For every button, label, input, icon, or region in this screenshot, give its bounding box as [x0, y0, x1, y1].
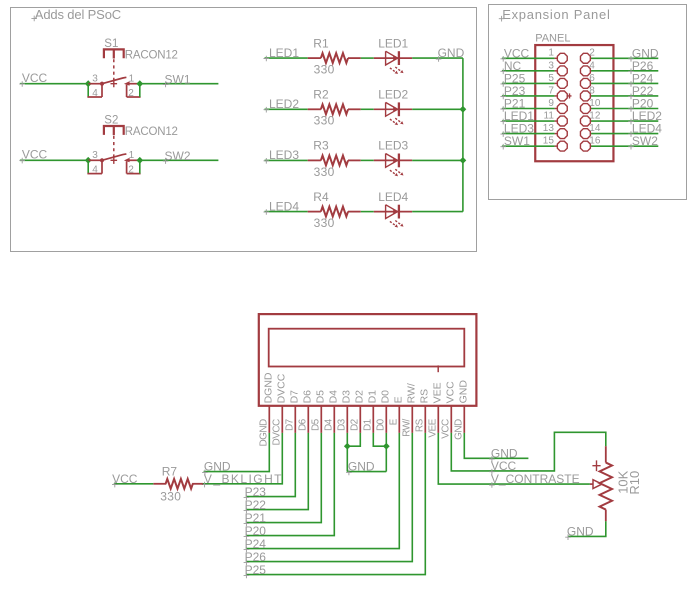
svg-text:LED1: LED1 — [378, 36, 408, 50]
svg-text:SW1: SW1 — [504, 134, 530, 148]
VEE tick on display window — [437, 365, 439, 372]
wire PANEL pin 10 to P20 — [591, 108, 658, 110]
wire DGND to GND — [204, 433, 270, 472]
svg-text:D2: D2 — [354, 390, 366, 404]
LCD pin VEE stub — [437, 406, 439, 433]
svg-text:D7: D7 — [289, 390, 301, 404]
svg-text:LED3: LED3 — [378, 139, 408, 153]
svg-text:P26: P26 — [245, 550, 267, 564]
net label SW2 — [163, 158, 169, 164]
svg-text:D4: D4 — [328, 390, 340, 404]
net label VCC (R7 row) — [112, 482, 118, 488]
net label VCC (S1 row) — [19, 81, 25, 87]
PANEL pin 13 circle — [557, 129, 567, 139]
PANEL pin 1 circle — [557, 53, 567, 63]
wire D3 to GND bus — [346, 433, 348, 472]
wire PANEL pin 2 to GND — [591, 57, 658, 59]
svg-text:SW2: SW2 — [165, 149, 191, 163]
wire PANEL pin 8 to P22 — [591, 95, 658, 97]
svg-text:DVCC: DVCC — [276, 373, 288, 403]
PANEL pin 9 circle — [557, 104, 567, 114]
svg-text:2: 2 — [128, 88, 134, 99]
svg-text:GND: GND — [438, 46, 465, 60]
net label V_CONTRASTE — [489, 482, 495, 488]
svg-text:P20: P20 — [245, 524, 267, 538]
wire LED4 cathode to GND rail — [412, 211, 463, 213]
wire D0 to GND bus — [385, 433, 387, 472]
R10 adjust cross — [592, 460, 600, 471]
PANEL pin 2 lead — [590, 57, 591, 59]
net label GND (LED rail) — [436, 56, 442, 62]
net label P21 — [500, 106, 506, 112]
PANEL pin 2 circle — [580, 53, 590, 63]
svg-text:10: 10 — [589, 98, 601, 109]
net label LED1 — [264, 56, 270, 62]
svg-text:R1: R1 — [313, 36, 329, 50]
wire P25 to LCD pin RS — [246, 433, 425, 575]
svg-text:GND: GND — [458, 380, 470, 404]
PANEL pin 14 lead — [590, 133, 591, 135]
svg-text:SW1: SW1 — [165, 72, 191, 86]
PANEL pin 9 lead — [555, 108, 558, 110]
svg-text:7: 7 — [548, 85, 554, 96]
svg-text:4: 4 — [589, 60, 595, 71]
svg-text:VCC: VCC — [441, 419, 452, 439]
net label LED3 — [500, 131, 506, 137]
svg-text:DGND: DGND — [259, 419, 270, 447]
PANEL pin 11 circle — [557, 116, 567, 126]
net label GND — [628, 56, 634, 62]
LED LED1 diode — [374, 57, 412, 59]
LCD pin D3 stub — [346, 406, 348, 433]
svg-text:D0: D0 — [376, 418, 387, 431]
wire LED1 cathode to GND rail — [412, 57, 463, 59]
svg-text:VEE: VEE — [428, 418, 439, 437]
LCD pin D6 stub — [307, 406, 309, 433]
svg-text:DGND: DGND — [263, 372, 275, 403]
PANEL pin 10 circle — [580, 104, 590, 114]
node junction right of S1 — [136, 80, 143, 87]
svg-text:RACON12: RACON12 — [125, 126, 178, 138]
net label P26 — [628, 69, 634, 75]
wire D1 to D0 junction — [373, 433, 386, 446]
PANEL pin 1 lead — [555, 57, 558, 59]
svg-text:R7: R7 — [162, 465, 178, 479]
svg-text:D6: D6 — [302, 390, 314, 404]
svg-text:14: 14 — [589, 123, 601, 134]
LCD pin DVCC stub — [281, 406, 283, 433]
svg-text:1: 1 — [548, 48, 554, 59]
LCD pin D7 stub — [294, 406, 296, 433]
wire LED1 net — [265, 57, 308, 59]
wire VCC to PANEL pin 1 — [502, 57, 555, 59]
wire P24 to LCD pin E — [246, 433, 399, 549]
svg-text:330: 330 — [314, 114, 335, 128]
PANEL pin 11 lead — [555, 120, 558, 122]
LCD pin D1 stub — [372, 406, 374, 433]
svg-text:LED3: LED3 — [269, 148, 299, 162]
svg-text:D3: D3 — [341, 390, 353, 404]
svg-text:VCC: VCC — [22, 71, 48, 85]
node junction left of S2 — [85, 157, 92, 164]
net label P21 — [244, 521, 250, 527]
svg-text:R2: R2 — [313, 88, 329, 102]
svg-text:D2: D2 — [350, 418, 361, 431]
svg-text:GND: GND — [348, 460, 375, 474]
svg-text:11: 11 — [544, 110, 555, 121]
net label P24 — [628, 81, 634, 87]
net label P20 — [628, 106, 634, 112]
wire P25 to PANEL pin 5 — [502, 82, 555, 84]
svg-text:LED1: LED1 — [269, 46, 299, 60]
wire P21 to LCD pin D5 — [246, 433, 321, 523]
LCD pin D0 stub — [385, 406, 387, 433]
wire PANEL pin 14 to LED4 — [591, 133, 658, 135]
svg-text:D5: D5 — [315, 390, 327, 404]
PANEL pin 16 circle — [580, 141, 590, 151]
net label P23 — [500, 94, 506, 100]
svg-text:D0: D0 — [380, 390, 392, 404]
PANEL pin 3 circle — [557, 66, 567, 76]
net label V_BKLIGHT — [202, 482, 208, 488]
net label GND (DGND) — [202, 470, 208, 476]
net label SW1 — [163, 82, 169, 88]
svg-text:R10: R10 — [627, 471, 642, 495]
resistor R4 330 — [308, 211, 321, 213]
title Adds del PSoC — [31, 16, 37, 22]
svg-text:S2: S2 — [104, 115, 118, 127]
svg-text:R3: R3 — [313, 139, 329, 153]
wire SW1 to PANEL pin 15 — [502, 145, 555, 147]
wire R1 to LED1 — [361, 57, 374, 59]
net label P25 — [500, 81, 506, 87]
PANEL pin 7 lead — [555, 95, 558, 97]
PANEL pin 12 circle — [580, 116, 590, 126]
svg-text:PANEL: PANEL — [535, 33, 570, 45]
LED LED4 diode — [374, 211, 412, 213]
net label VCC — [500, 56, 506, 62]
LCD pin RW/ stub — [411, 406, 413, 433]
PANEL pin 14 circle — [580, 129, 590, 139]
svg-text:VEE: VEE — [432, 382, 444, 403]
PANEL pin 6 circle — [580, 78, 590, 88]
svg-text:SW2: SW2 — [632, 134, 658, 148]
svg-text:V_CONTRASTE: V_CONTRASTE — [491, 472, 580, 486]
wire P21 to PANEL pin 9 — [502, 108, 555, 110]
PANEL pin 6 lead — [590, 82, 591, 84]
LED4 light arrows — [390, 221, 396, 225]
svg-text:1: 1 — [129, 150, 135, 161]
wire LED4 net — [265, 211, 308, 213]
svg-text:5: 5 — [548, 73, 554, 84]
PANEL pin 15 lead — [555, 145, 558, 147]
svg-text:3: 3 — [92, 150, 98, 161]
svg-text:VCC: VCC — [22, 148, 48, 162]
net label GND (data pins) — [346, 470, 352, 476]
net label P23 — [244, 495, 250, 501]
wire R3 to LED3 — [361, 159, 374, 161]
node junction rail LED2 — [460, 106, 467, 113]
svg-text:4: 4 — [92, 165, 98, 176]
svg-text:8: 8 — [589, 85, 595, 96]
frame Expansion Panel sheet — [489, 5, 687, 200]
net label VCC (S2 row) — [19, 158, 25, 164]
svg-text:D5: D5 — [311, 418, 322, 431]
LED2 light arrows — [390, 119, 396, 123]
net label P25 — [244, 573, 250, 579]
wire P26 to LCD pin RW/ — [246, 433, 412, 562]
LCD display window — [269, 329, 465, 367]
svg-text:330: 330 — [160, 489, 181, 503]
wire SW1 net from S1 — [140, 83, 219, 85]
wire LED3 cathode to GND rail — [412, 159, 463, 161]
svg-text:VCC: VCC — [491, 459, 517, 473]
wire SW2 net from S2 — [140, 159, 219, 161]
svg-text:D6: D6 — [298, 418, 309, 431]
svg-text:12: 12 — [589, 110, 601, 121]
frame Adds del PSoC sheet — [11, 8, 477, 252]
wire R10 bottom to GND — [568, 521, 606, 536]
wire R4 to LED4 — [361, 211, 374, 213]
net label P22 — [628, 94, 634, 100]
wire VEE to V_CONTRASTE wiper — [438, 433, 590, 484]
resistor R1 330 — [308, 57, 321, 59]
wire DVCC to V_BKLIGHT — [202, 433, 282, 484]
svg-text:6: 6 — [589, 73, 595, 84]
potentiometer R10 10K — [605, 446, 607, 462]
net label P26 — [244, 560, 250, 566]
net label SW1 — [500, 144, 506, 150]
PANEL pin 4 lead — [590, 70, 591, 72]
wire P20 to LCD pin D4 — [246, 433, 334, 536]
wire VCC from LCD VCC pin to R10 — [451, 432, 606, 471]
wire VCC net to S1 — [20, 83, 88, 85]
pin 7 polarity cross — [568, 93, 572, 98]
svg-text:RW/: RW/ — [406, 383, 418, 403]
svg-text:D7: D7 — [285, 418, 296, 431]
svg-text:9: 9 — [548, 98, 554, 109]
PANEL pin 5 circle — [557, 78, 567, 88]
svg-text:E: E — [389, 418, 400, 425]
wire LED1 to PANEL pin 11 — [502, 120, 555, 122]
LED3 light arrows — [390, 170, 396, 174]
LCD pin VCC stub — [450, 406, 452, 433]
net label GND (R10) — [565, 534, 571, 540]
resistor R2 330 — [308, 108, 321, 110]
wire D2 to D3 junction — [347, 433, 360, 446]
svg-text:330: 330 — [314, 63, 335, 77]
wire VCC net to S2 — [20, 159, 88, 161]
PANEL pin 4 circle — [580, 66, 590, 76]
svg-text:1: 1 — [129, 74, 135, 85]
svg-text:330: 330 — [314, 216, 335, 230]
svg-text:RS: RS — [415, 418, 426, 432]
net label VCC (right) — [489, 469, 495, 475]
wire P23 to PANEL pin 7 — [502, 95, 555, 97]
wire LED3 to PANEL pin 13 — [502, 133, 555, 135]
net label LED2 — [628, 119, 634, 125]
svg-text:P24: P24 — [245, 537, 267, 551]
svg-text:GND: GND — [567, 524, 594, 538]
wire GND bus D3-D0 — [347, 471, 386, 473]
node junction left of S1 — [85, 80, 92, 87]
svg-text:LED4: LED4 — [269, 199, 299, 213]
svg-text:P25: P25 — [245, 563, 267, 577]
wire VCC to R7 — [114, 483, 154, 485]
svg-text:LED2: LED2 — [269, 97, 299, 111]
wire P23 to LCD pin D7 — [246, 433, 295, 497]
svg-text:330: 330 — [314, 165, 335, 179]
net label LED4 — [264, 209, 270, 215]
LED LED3 diode — [374, 159, 412, 161]
wire GND rail vertical — [462, 58, 464, 212]
net label NC — [500, 69, 506, 75]
wire R2 to LED2 — [361, 108, 374, 110]
svg-text:2: 2 — [589, 48, 595, 59]
net label GND (right) — [489, 456, 495, 462]
svg-text:P23: P23 — [245, 485, 267, 499]
wire PANEL pin 12 to LED2 — [591, 120, 658, 122]
svg-text:D1: D1 — [367, 390, 379, 404]
R10 wiper arrow — [590, 483, 593, 485]
LCD pin DGND stub — [268, 406, 270, 433]
svg-text:13: 13 — [543, 123, 555, 134]
PANEL pin 12 lead — [590, 120, 591, 122]
wire GND from LCD GND pin — [464, 433, 528, 458]
svg-text:D3: D3 — [337, 418, 348, 431]
PANEL pin 8 circle — [580, 91, 590, 101]
LCD pin D4 stub — [333, 406, 335, 433]
title Expansion Panel — [499, 16, 505, 22]
wire NC to PANEL pin 3 — [502, 70, 555, 72]
svg-text:D1: D1 — [363, 418, 374, 431]
svg-text:VCC: VCC — [112, 472, 138, 486]
svg-text:15: 15 — [543, 136, 555, 147]
wire PANEL pin 16 to SW2 — [591, 145, 658, 147]
wire P22 to LCD pin D6 — [246, 433, 308, 510]
resistor R3 330 — [308, 159, 321, 161]
LCD pin RS stub — [424, 406, 426, 433]
net label P22 — [244, 508, 250, 514]
PANEL pin 3 lead — [555, 70, 558, 72]
switch S2 RACON12 — [104, 126, 124, 135]
net label LED2 — [264, 107, 270, 113]
svg-text:DVCC: DVCC — [272, 419, 283, 445]
svg-text:LED4: LED4 — [378, 190, 408, 204]
LED1 light arrows — [390, 68, 396, 72]
node junction right of S2 — [136, 157, 143, 164]
node junction rail LED3 — [460, 157, 467, 164]
LED LED2 diode — [374, 108, 412, 110]
net label SW2 — [628, 144, 634, 150]
PANEL pin 13 lead — [555, 133, 558, 135]
PANEL pin 7 circle — [557, 91, 567, 101]
node junction D3 — [344, 443, 351, 450]
svg-text:16: 16 — [589, 136, 601, 147]
svg-text:4: 4 — [92, 88, 98, 99]
svg-text:S1: S1 — [104, 38, 118, 50]
PANEL pin 5 lead — [555, 82, 558, 84]
svg-text:RS: RS — [419, 389, 431, 404]
svg-text:LED2: LED2 — [378, 88, 408, 102]
svg-text:2: 2 — [128, 165, 134, 176]
LCD pin D2 stub — [359, 406, 361, 433]
LCD pin GND stub — [463, 406, 465, 433]
wire PANEL pin 4 to P26 — [591, 70, 658, 72]
net label LED1 — [500, 119, 506, 125]
svg-text:Expansion Panel: Expansion Panel — [502, 7, 610, 22]
net label P20 — [244, 534, 250, 540]
switch S1 RACON12 — [104, 49, 124, 58]
net label LED4 — [628, 131, 634, 137]
wire LED3 net — [265, 159, 308, 161]
LCD module outline — [259, 314, 477, 406]
svg-text:3: 3 — [92, 74, 98, 85]
PANEL pin 8 lead — [590, 95, 591, 97]
net label P24 — [244, 547, 250, 553]
svg-text:P22: P22 — [245, 498, 267, 512]
svg-text:GND: GND — [454, 419, 465, 440]
node junction D0 — [383, 443, 390, 450]
svg-text:E: E — [393, 396, 405, 403]
connector PANEL outline — [535, 45, 613, 161]
PANEL pin 16 lead — [590, 145, 591, 147]
svg-text:Adds del PSoC: Adds del PSoC — [35, 7, 121, 22]
svg-text:RW/: RW/ — [402, 419, 413, 437]
LCD pin E stub — [398, 406, 400, 433]
svg-text:V_BKLIGHT: V_BKLIGHT — [204, 472, 283, 486]
svg-text:R4: R4 — [313, 190, 329, 204]
svg-text:P21: P21 — [245, 511, 267, 525]
PANEL pin 10 lead — [590, 108, 591, 110]
wire LED2 cathode to GND rail — [412, 108, 463, 110]
wire LED2 net — [265, 108, 308, 110]
net label LED3 — [264, 158, 270, 164]
svg-text:RACON12: RACON12 — [125, 50, 178, 62]
wire PANEL pin 6 to P24 — [591, 82, 658, 84]
PANEL pin 15 circle — [557, 141, 567, 151]
resistor R7 330 — [153, 483, 166, 485]
svg-text:VCC: VCC — [445, 381, 457, 404]
svg-text:D4: D4 — [324, 418, 335, 431]
svg-text:3: 3 — [548, 60, 554, 71]
LCD pin D5 stub — [320, 406, 322, 433]
